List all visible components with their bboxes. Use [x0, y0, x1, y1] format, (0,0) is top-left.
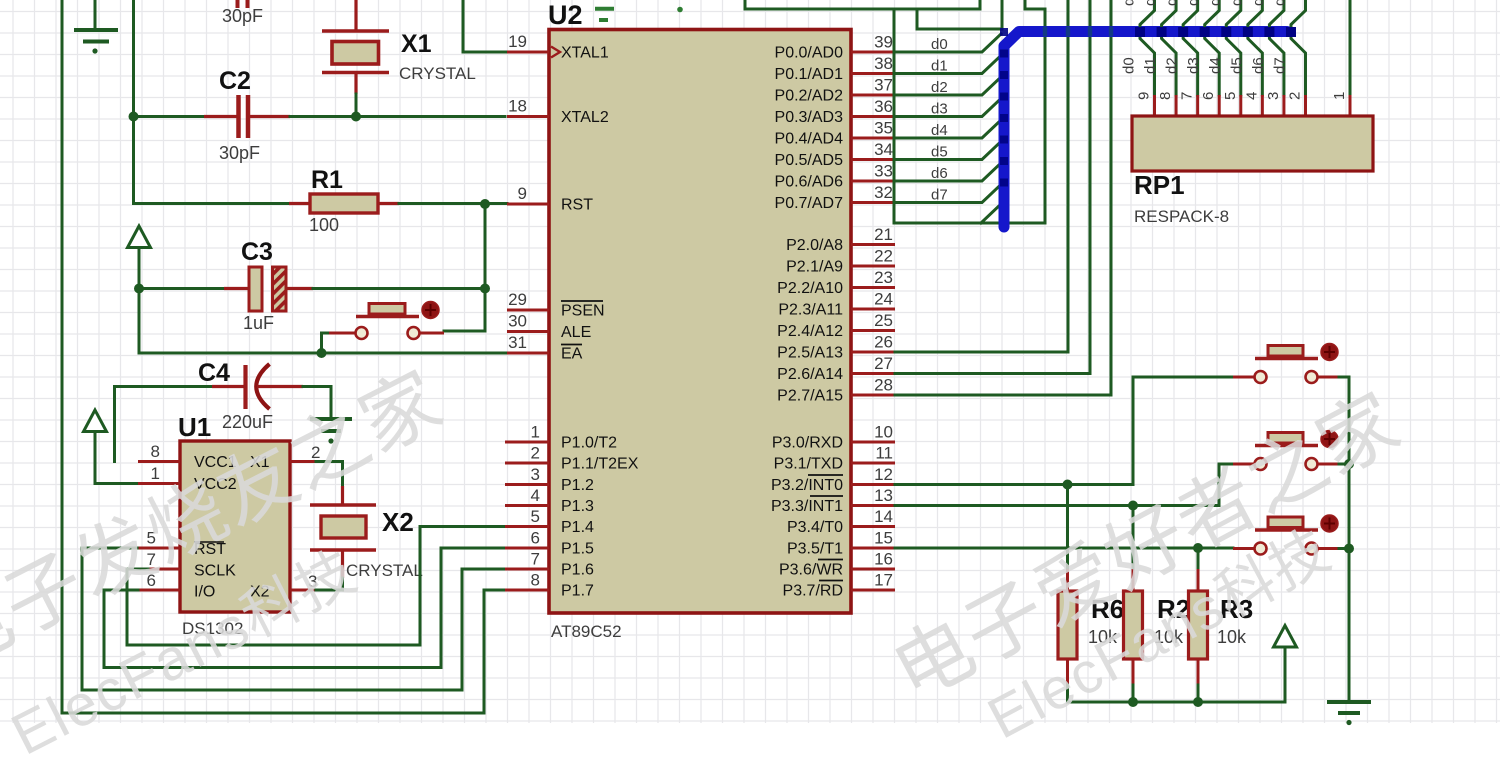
svg-text:d5: d5 [1228, 0, 1245, 6]
svg-text:9: 9 [518, 184, 527, 203]
svg-text:8: 8 [531, 571, 540, 590]
svg-text:220uF: 220uF [222, 412, 273, 432]
svg-text:13: 13 [874, 486, 893, 505]
RP1 pin 1 stub [1349, 95, 1352, 117]
wire power arrow stem down to EA row [138, 248, 141, 354]
svg-text:d1: d1 [1142, 0, 1159, 6]
U2 pin 14 P3.4/T0 stub [851, 525, 895, 528]
RP1 pin 6 stub [1218, 95, 1221, 117]
U2 pin 4 P1.3 stub [505, 504, 549, 507]
svg-text:P1.6: P1.6 [561, 562, 594, 579]
wire button left contact branch [322, 333, 331, 353]
junction key2 / vertical [1344, 459, 1354, 469]
svg-text:d3: d3 [931, 101, 948, 118]
U2 pin 16 P3.6/WR stub [851, 568, 895, 571]
svg-text:1: 1 [531, 423, 540, 442]
RP1 pin 3 stub [1282, 95, 1285, 117]
IC U2 AT89C52 body [549, 30, 851, 614]
wire U1 I/O to U2 P1.5 [104, 548, 505, 668]
U2 pin 37 P0.2/AD2 stub [851, 94, 895, 97]
wire P3.3/INT1 to key2 [895, 464, 1233, 506]
wire R2 bottom lead [1132, 685, 1135, 702]
svg-text:d6: d6 [1250, 0, 1267, 6]
wire P3.5/T1 to key3 [895, 547, 1233, 550]
svg-text:AT89C52: AT89C52 [551, 622, 622, 641]
svg-text:P0.6/AD6: P0.6/AD6 [775, 174, 844, 191]
power symbol (up arrow) near C3 [128, 226, 151, 248]
U1 pin 1 VCC2 stub [138, 482, 180, 485]
svg-text:P3.4/T0: P3.4/T0 [787, 519, 843, 536]
svg-text:d2: d2 [931, 79, 948, 96]
wire XTAL1 net from top to U2 pin 19 [463, 0, 507, 52]
svg-text:P1.5: P1.5 [561, 541, 594, 558]
ground (bottom-right) [1327, 702, 1371, 713]
svg-text:8: 8 [151, 442, 160, 461]
svg-text:d6: d6 [1250, 57, 1267, 74]
svg-text:30pF: 30pF [222, 6, 263, 26]
capacitor C3 [224, 287, 249, 290]
svg-text:4: 4 [531, 486, 540, 505]
wire R3 bottom lead [1197, 685, 1200, 702]
svg-text:16: 16 [874, 550, 893, 569]
svg-text:8: 8 [1157, 92, 1174, 100]
svg-text:P3.1/TXD: P3.1/TXD [774, 456, 843, 473]
wire buttons common right vertical to ground [1339, 377, 1349, 700]
wire key3 right contact [1339, 547, 1349, 550]
resistor pack RP1 body [1132, 116, 1373, 171]
U2 pin 25 P2.4/A12 stub [851, 329, 895, 332]
wire R1 to U2 RST pin 9 [399, 202, 507, 205]
RP1 pin 7 stub [1196, 95, 1199, 117]
wire resistor bottoms to power arrow [1068, 685, 1286, 702]
U1 pin 7 SCLK stub [148, 568, 180, 571]
wire power arrow to U1 pin 1 [95, 432, 139, 484]
U2 pin 22 P2.1/A9 stub [851, 265, 895, 268]
wire XTAL2 row left segment [134, 115, 206, 118]
U2 pin 10 P3.0/RXD stub [851, 441, 895, 444]
wire R6 top lead (green part) [1066, 485, 1069, 571]
wire x485 vertical RST to reset button [444, 204, 485, 331]
U2 pin 28 P2.7/A15 stub [851, 394, 895, 397]
svg-text:4: 4 [1243, 92, 1260, 100]
svg-text:1: 1 [151, 464, 160, 483]
svg-text:P0.3/AD3: P0.3/AD3 [775, 109, 844, 126]
svg-text:d0: d0 [931, 36, 948, 53]
wire C3 right lead to x485 vertical [313, 287, 485, 290]
wire top net A (y9) [745, 0, 980, 9]
svg-text:18: 18 [508, 97, 527, 116]
wire RP1 pin 3 to bus (net d6) [1269, 0, 1284, 95]
U2 pin 12 P3.2/INT0 stub [851, 483, 895, 486]
svg-text:28: 28 [874, 376, 893, 395]
svg-text:38: 38 [874, 54, 893, 73]
wire net-P1.7 from top-left around bottom to U2 pin 8 [62, 0, 505, 713]
U2 pin 31 EA stub [507, 352, 549, 355]
capacitor C4 (polarized, curved plate) [212, 385, 246, 388]
power symbol (up arrow) bottom-right [1274, 626, 1297, 648]
U2 pin 8 P1.7 stub [505, 589, 549, 592]
svg-text:9: 9 [1136, 92, 1153, 100]
svg-text:I/O: I/O [194, 584, 215, 601]
svg-text:27: 27 [874, 354, 893, 373]
svg-text:39: 39 [874, 33, 893, 52]
svg-text:21: 21 [874, 225, 893, 244]
bus crossing marks (P2 verticals) [1043, 27, 1047, 37]
U2 pin 38 P0.1/AD1 stub [851, 72, 895, 75]
wire P2.7/A15 row up to top (x1111) [895, 0, 1111, 395]
svg-text:PSEN: PSEN [561, 303, 605, 320]
U2 pin 19 XTAL1 stub [507, 51, 549, 54]
U2 pin 30 ALE stub [507, 330, 549, 333]
wire bottom horizontal y223 under bus [894, 222, 1045, 225]
U2 pin 2 P1.1/T2EX stub [505, 462, 549, 465]
svg-text:19: 19 [508, 32, 527, 51]
U1 pin 2 X1 stub [290, 460, 316, 463]
wire RP1 pin 9 to bus (net d0) [1140, 0, 1155, 95]
svg-text:P0.7/AD7: P0.7/AD7 [775, 195, 844, 212]
wire vertical x894 along P0 stubs [893, 9, 896, 223]
svg-text:C2: C2 [219, 67, 251, 95]
svg-text:d6: d6 [931, 165, 948, 182]
svg-text:R1: R1 [311, 166, 343, 194]
wire RP1 pin 5 to bus (net d4) [1226, 0, 1241, 95]
U2 pin 11 P3.1/TXD stub [851, 462, 895, 465]
junction RST row / x485 vertical [480, 199, 490, 209]
svg-text:7: 7 [531, 550, 540, 569]
svg-text:d4: d4 [1207, 0, 1224, 6]
svg-text:P2.6/A14: P2.6/A14 [777, 366, 843, 383]
wire C4 right lead to ground [303, 387, 331, 418]
svg-text:1: 1 [1331, 92, 1348, 100]
svg-text:P3.3/INT1: P3.3/INT1 [771, 498, 843, 515]
watermark left [0, 354, 457, 767]
svg-text:RP1: RP1 [1134, 170, 1185, 200]
push button key1 [1233, 376, 1254, 379]
push button key2 [1233, 463, 1254, 466]
junction INT0 row / R6 [1063, 480, 1073, 490]
svg-text:d5: d5 [931, 144, 948, 161]
U2 pin 34 P0.5/AD5 stub [851, 158, 895, 161]
junction C3 row / x485 [480, 284, 490, 294]
svg-text:29: 29 [508, 290, 527, 309]
wire P0.2 / net d2 to bus [895, 77, 1001, 95]
svg-text:EA: EA [561, 346, 583, 363]
U1 pin 3 X2 stub [290, 589, 316, 592]
bus (blue) [1004, 32, 1287, 228]
svg-text:11: 11 [875, 444, 893, 463]
svg-text:10: 10 [874, 423, 893, 442]
U1 pin 6 I/O stub [138, 589, 180, 592]
wire bus entry diagonal from y223 [981, 204, 1001, 223]
wire U1 SCLK to U2 P1.4 [127, 527, 505, 646]
bus entry blobs (left side) [1000, 28, 1008, 36]
svg-text:100: 100 [309, 215, 339, 235]
svg-text:RST: RST [561, 197, 593, 214]
wire U1 X1 pin to X2 top [316, 462, 343, 488]
junction EA row / button branch [317, 348, 327, 358]
svg-text:d7: d7 [931, 187, 948, 204]
svg-text:14: 14 [874, 507, 893, 526]
watermark right [879, 376, 1415, 751]
svg-text:P2.3/A11: P2.3/A11 [778, 302, 843, 319]
U2 pin 3 P1.2 stub [505, 483, 549, 486]
U2 pin 23 P2.2/A10 stub [851, 286, 895, 289]
svg-text:P1.2: P1.2 [561, 477, 594, 494]
svg-text:30: 30 [508, 312, 527, 331]
svg-text:P1.1/T2EX: P1.1/T2EX [561, 456, 639, 473]
svg-text:XTAL1: XTAL1 [561, 45, 609, 62]
wire RP1 pin 8 to bus (net d1) [1162, 0, 1177, 95]
svg-text:36: 36 [874, 97, 893, 116]
crystal X2 [341, 486, 344, 504]
svg-text:P3.7/RD: P3.7/RD [783, 583, 843, 600]
svg-text:12: 12 [874, 465, 893, 484]
XTAL1 clock arrow mark [551, 47, 560, 58]
svg-text:37: 37 [874, 76, 893, 95]
svg-text:d0: d0 [1121, 57, 1138, 74]
U1 pin 5 RST stub [137, 547, 180, 550]
capacitor C2 [204, 95, 290, 138]
U2 pin 13 P3.3/INT1 stub [851, 504, 895, 507]
wire P3.2/INT0 to key1 [895, 377, 1233, 485]
wire C3 left lead row [139, 287, 225, 290]
svg-text:2: 2 [531, 444, 540, 463]
ground (top-left) [74, 30, 118, 42]
svg-text:P1.3: P1.3 [561, 498, 594, 515]
U2 pin 26 P2.5/A13 stub [851, 351, 895, 354]
svg-text:d2: d2 [1164, 0, 1181, 6]
crystal X1 [354, 0, 357, 30]
svg-text:6: 6 [1200, 92, 1217, 100]
wire net XTAL2/C2 left vertical down to R1 [134, 0, 290, 204]
svg-text:5: 5 [531, 507, 540, 526]
wire top net B (y29) [917, 0, 1002, 29]
svg-text:P3.5/T1: P3.5/T1 [787, 541, 843, 558]
svg-text:CRYSTAL: CRYSTAL [399, 64, 476, 83]
U2 pin 36 P0.3/AD3 stub [851, 115, 895, 118]
svg-text:d3: d3 [1185, 57, 1202, 74]
svg-text:22: 22 [874, 247, 893, 266]
junction x133/C2 row [129, 112, 139, 122]
wire P0.7 / net d7 to bus [895, 185, 1001, 203]
wire RP1 pin 6 to bus (net d3) [1205, 0, 1220, 95]
svg-text:X2: X2 [382, 507, 414, 537]
wire P0.1 / net d1 to bus [895, 56, 1001, 74]
wire RP1 pin 7 to bus (net d2) [1183, 0, 1198, 95]
svg-text:U2: U2 [548, 0, 583, 30]
wire P0.4 / net d4 to bus [895, 120, 1001, 138]
svg-text:d3: d3 [1185, 0, 1202, 6]
wire R3 top lead (green part) [1197, 548, 1200, 570]
svg-text:34: 34 [874, 140, 893, 159]
push button (reset) [329, 332, 355, 335]
push button key3 [1233, 547, 1254, 550]
power symbol (up arrow) near U1 [84, 410, 107, 432]
RP1 pin 2 stub [1304, 95, 1307, 117]
svg-text:P1.4: P1.4 [561, 519, 594, 536]
U2 pin 32 P0.7/AD7 stub [851, 201, 895, 204]
svg-text:C3: C3 [241, 238, 273, 266]
wire EA row from power stem to U2 pin 31 [139, 352, 507, 355]
RP1 pin 1 wire from top [1349, 0, 1352, 95]
resistor R3 [1197, 569, 1200, 592]
svg-text:P0.1/AD1: P0.1/AD1 [775, 66, 844, 83]
svg-text:24: 24 [874, 290, 893, 309]
svg-text:P2.5/A13: P2.5/A13 [777, 345, 843, 362]
junction R2 bottom [1128, 697, 1138, 707]
svg-text:d4: d4 [931, 122, 948, 139]
wire RP1 pin 2 to bus (net d7) [1291, 0, 1306, 95]
svg-text:P1.0/T2: P1.0/T2 [561, 435, 617, 452]
ground (near C4) [310, 419, 352, 431]
U2 pin 5 P1.4 stub [505, 525, 549, 528]
svg-text:3: 3 [1265, 92, 1282, 100]
RP1 pin 9 stub [1153, 95, 1156, 117]
U1 pin 8 VCC1 stub [138, 460, 180, 463]
svg-text:25: 25 [874, 311, 893, 330]
svg-text:C4: C4 [198, 359, 230, 387]
svg-text:P2.4/A12: P2.4/A12 [777, 323, 843, 340]
wire X2 bottom to U1 pin 3 [316, 578, 343, 590]
wire P2.6 up to top (x1068) [895, 0, 1068, 352]
U2 pin 15 P3.5/T1 stub [851, 547, 895, 550]
svg-text:2: 2 [1286, 92, 1303, 100]
wire P0.0 / net d0 to bus [895, 34, 1001, 52]
RP1 pin 8 stub [1175, 95, 1178, 117]
svg-text:P0.2/AD2: P0.2/AD2 [775, 88, 844, 105]
U2 pin 29 PSEN stub [507, 309, 549, 312]
U2 pin 21 P2.0/A8 stub [851, 243, 895, 246]
capacitor C1 plates (cut off at top) [238, 0, 248, 8]
svg-text:U1: U1 [178, 412, 211, 442]
U2 pin 27 P2.6/A14 stub [851, 372, 895, 375]
RP1 pin 5 stub [1239, 95, 1242, 117]
junction R3 bottom [1193, 697, 1203, 707]
svg-text:P0.0/AD0: P0.0/AD0 [775, 45, 844, 62]
junction C3 row / power stem [134, 284, 144, 294]
svg-text:7: 7 [1179, 92, 1196, 100]
svg-text:6: 6 [531, 529, 540, 548]
svg-text:SCLK: SCLK [194, 563, 236, 580]
stray ground mark near U2 label [595, 9, 614, 20]
U2 pin 7 P1.6 stub [505, 568, 549, 571]
svg-text:3: 3 [531, 465, 540, 484]
svg-text:P2.1/A9: P2.1/A9 [786, 259, 843, 276]
wire key2 right contact [1339, 463, 1349, 466]
svg-text:P0.5/AD5: P0.5/AD5 [775, 152, 844, 169]
svg-text:30pF: 30pF [219, 143, 260, 163]
wire XTAL2 row right segment to U2 [290, 115, 505, 118]
svg-text:P2.7/A15: P2.7/A15 [777, 388, 843, 405]
RP1 pin 4 stub [1261, 95, 1264, 117]
wire P2.7 up to top (x1090) [895, 0, 1090, 374]
wire C4 left lead up-over to U1 pin 8 [115, 387, 214, 462]
svg-text:15: 15 [874, 529, 893, 548]
svg-text:33: 33 [874, 162, 893, 181]
resistor R6 [1066, 569, 1069, 592]
svg-text:d5: d5 [1228, 57, 1245, 74]
wire P0.5 / net d5 to bus [895, 142, 1001, 160]
U2 pin 24 P2.3/A11 stub [851, 308, 895, 311]
svg-text:RESPACK-8: RESPACK-8 [1134, 207, 1229, 226]
U2 pin 35 P0.4/AD4 stub [851, 137, 895, 140]
svg-text:P2.2/A10: P2.2/A10 [777, 280, 843, 297]
wire top step down x1045 [1025, 0, 1045, 223]
resistor R2 [1132, 569, 1135, 592]
IC U1 DS1302 body [180, 441, 290, 612]
wire R2 top lead (green part) [1132, 506, 1135, 571]
U2 pin 17 P3.7/RD stub [851, 589, 895, 592]
svg-text:32: 32 [874, 183, 893, 202]
U2 pin 6 P1.5 stub [505, 547, 549, 550]
wire P0.3 / net d3 to bus [895, 99, 1001, 117]
svg-text:P3.0/RXD: P3.0/RXD [772, 435, 843, 452]
junction INT1 row / R2 [1128, 501, 1138, 511]
svg-text:P2.0/A8: P2.0/A8 [786, 237, 843, 254]
resistor R1 [289, 202, 311, 205]
svg-text:d0: d0 [1121, 0, 1138, 6]
U2 pin 18 XTAL2 stub [507, 115, 549, 118]
junction key3 / vertical [1344, 544, 1354, 554]
svg-text:17: 17 [874, 571, 893, 590]
svg-text:d1: d1 [1142, 57, 1159, 74]
wire power arrow stem [1284, 647, 1287, 702]
svg-text:P3.6/WR: P3.6/WR [779, 562, 843, 579]
svg-text:5: 5 [1222, 92, 1239, 100]
U2 pin 33 P0.6/AD6 stub [851, 180, 895, 183]
svg-text:1uF: 1uF [243, 313, 274, 333]
wire P0.6 / net d6 to bus [895, 163, 1001, 181]
svg-text:d1: d1 [931, 58, 948, 75]
svg-text:35: 35 [874, 119, 893, 138]
svg-text:XTAL2: XTAL2 [561, 109, 609, 126]
svg-text:26: 26 [874, 333, 893, 352]
U2 pin 1 P1.0/T2 stub [505, 441, 549, 444]
svg-text:P0.4/AD4: P0.4/AD4 [775, 131, 844, 148]
junction X1 bottom / XTAL2 row [351, 112, 361, 122]
wire X1 bottom lead to XTAL2 row [355, 94, 358, 117]
junction T1 row / R3 [1193, 543, 1203, 553]
svg-text:31: 31 [508, 333, 527, 352]
svg-text:P3.2/INT0: P3.2/INT0 [771, 477, 843, 494]
U2 pin 39 P0.0/AD0 stub [851, 51, 895, 54]
svg-text:P1.7: P1.7 [561, 583, 594, 600]
svg-text:X1: X1 [401, 30, 432, 58]
svg-text:d7: d7 [1271, 57, 1288, 74]
U2 pin 9 RST stub [507, 203, 549, 206]
wire to top-left ground [94, 0, 97, 28]
svg-text:ALE: ALE [561, 324, 591, 341]
wire U1 RST to U2 P1.6 [82, 548, 505, 690]
svg-text:d2: d2 [1164, 57, 1181, 74]
svg-text:d4: d4 [1207, 57, 1224, 74]
svg-text:23: 23 [874, 268, 893, 287]
wire RP1 pin 4 to bus (net d5) [1248, 0, 1263, 95]
svg-text:d7: d7 [1271, 0, 1288, 6]
